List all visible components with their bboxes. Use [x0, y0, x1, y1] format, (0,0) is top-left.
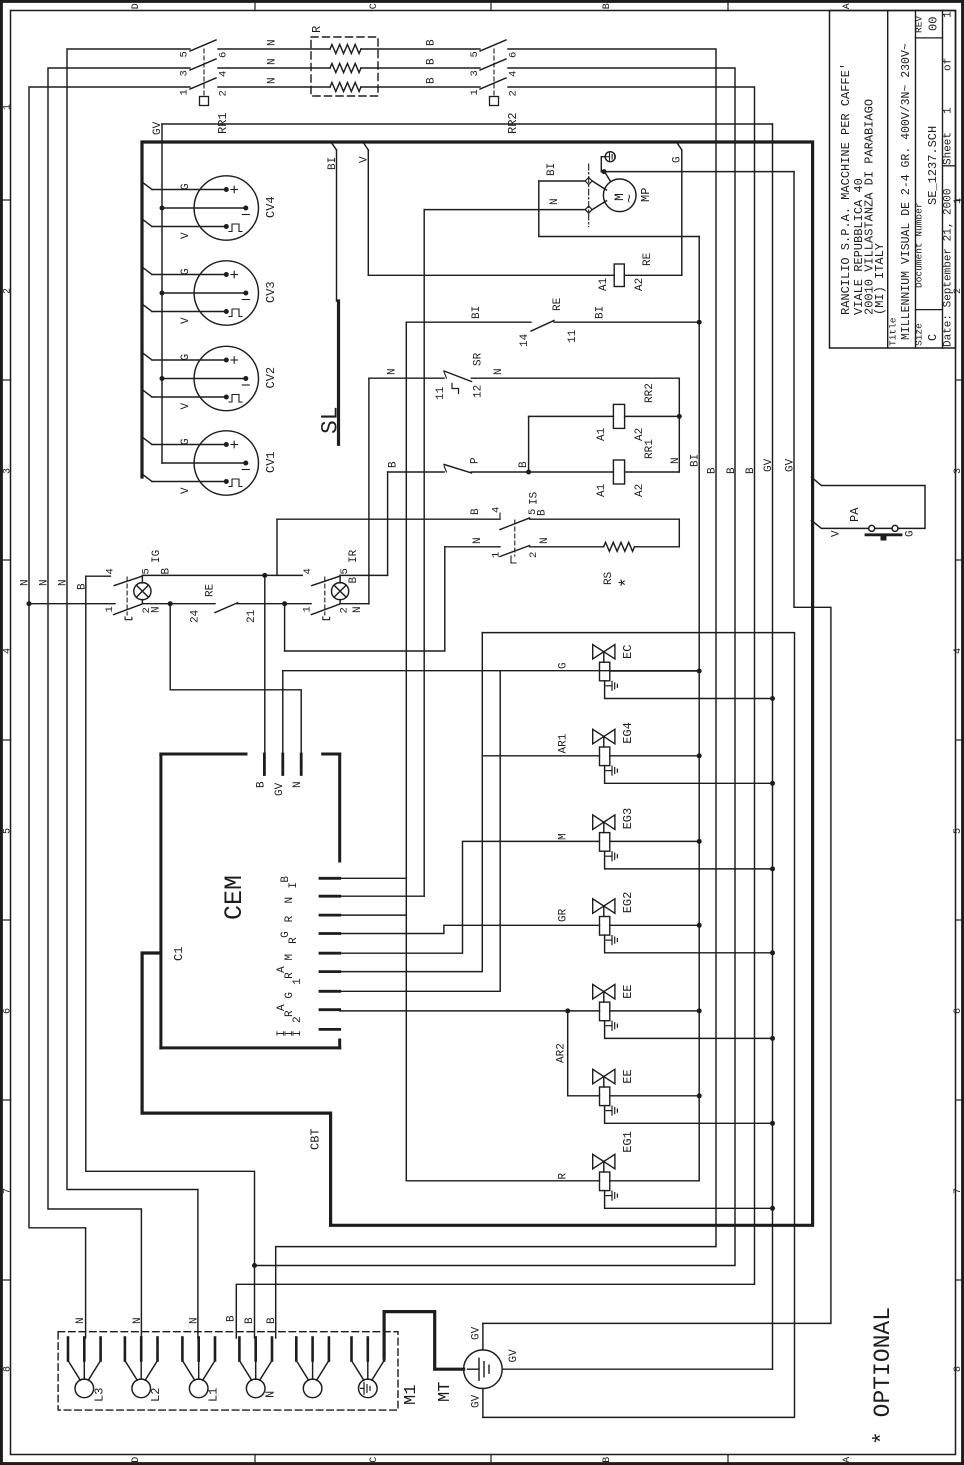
svg-text:B: B [266, 1317, 278, 1324]
svg-text:G: G [180, 438, 192, 445]
svg-text:A: A [276, 1004, 288, 1011]
svg-text:EE: EE [621, 984, 635, 998]
svg-text:A1: A1 [596, 483, 608, 497]
svg-text:4: 4 [104, 568, 116, 574]
svg-text:11: 11 [435, 386, 447, 400]
svg-text:BI: BI [595, 306, 607, 319]
svg-text:4: 4 [491, 507, 503, 513]
svg-text:IR: IR [348, 549, 360, 563]
svg-text:Size: Size [914, 323, 925, 346]
svg-text:L3: L3 [92, 1388, 106, 1402]
svg-text:B: B [226, 1315, 238, 1322]
svg-text:00: 00 [927, 17, 941, 31]
svg-text:B: B [426, 39, 438, 46]
svg-text:3: 3 [179, 70, 191, 76]
svg-text:G: G [557, 662, 569, 669]
svg-text:1: 1 [943, 107, 955, 114]
svg-text:N: N [267, 58, 279, 65]
svg-text:V: V [180, 317, 192, 324]
svg-text:C: C [926, 334, 940, 341]
svg-text:21: 21 [246, 609, 258, 623]
svg-text:BI: BI [690, 454, 702, 467]
svg-text:AR2: AR2 [556, 1043, 568, 1063]
svg-text:2: 2 [339, 607, 351, 613]
svg-text:R: R [557, 1173, 569, 1180]
svg-text:R: R [284, 915, 296, 922]
svg-text:N: N [493, 368, 505, 375]
svg-text:V: V [831, 530, 843, 537]
svg-text:1: 1 [2, 104, 13, 110]
svg-text:GV: GV [471, 1394, 483, 1408]
svg-text:SL: SL [318, 406, 344, 434]
svg-text:R: R [310, 26, 324, 33]
svg-text:L2: L2 [149, 1388, 163, 1402]
svg-text:B: B [537, 509, 549, 516]
svg-text:PA: PA [848, 507, 862, 522]
svg-text:G: G [284, 992, 296, 999]
svg-text:L1: L1 [207, 1388, 221, 1402]
svg-text:12: 12 [473, 385, 485, 398]
svg-text:GV: GV [274, 782, 286, 796]
svg-text:* OPTIONAL: * OPTIONAL [870, 1307, 896, 1445]
svg-text:N: N [387, 368, 399, 375]
svg-text:RE: RE [642, 252, 654, 266]
svg-text:GR: GR [557, 908, 569, 922]
svg-text:IS: IS [529, 491, 541, 505]
svg-text:D: D [131, 3, 142, 9]
svg-text:B: B [244, 1317, 256, 1324]
svg-text:RANCILIO S.P.A. MACCHINE PER C: RANCILIO S.P.A. MACCHINE PER CAFFE' [839, 63, 853, 315]
svg-text:N: N [132, 1317, 144, 1324]
svg-text:4: 4 [218, 71, 230, 77]
svg-text:C1: C1 [172, 947, 186, 961]
svg-text:BI: BI [546, 163, 558, 176]
svg-text:3: 3 [953, 468, 964, 474]
svg-text:N: N [539, 537, 551, 544]
svg-text:N: N [292, 781, 304, 788]
svg-text:EC: EC [621, 645, 635, 659]
svg-text:CV4: CV4 [264, 196, 278, 218]
svg-text:8: 8 [953, 1366, 964, 1372]
svg-text:Date: September 21, 2000: Date: September 21, 2000 [943, 189, 955, 347]
svg-text:G: G [180, 183, 192, 190]
svg-text:2: 2 [508, 90, 520, 96]
svg-text:IG: IG [151, 550, 163, 563]
svg-text:RR2: RR2 [506, 112, 520, 134]
svg-text:GV: GV [508, 1349, 520, 1363]
svg-text:EG1: EG1 [621, 1131, 635, 1153]
svg-text:5: 5 [2, 828, 13, 834]
svg-text:A: A [842, 1457, 853, 1463]
svg-text:1: 1 [953, 198, 964, 204]
svg-text:MP: MP [639, 188, 653, 202]
svg-text:REV: REV [914, 16, 925, 33]
svg-text:I: I [292, 1030, 304, 1037]
svg-text:N: N [549, 198, 561, 205]
svg-text:1: 1 [301, 606, 313, 612]
svg-text:A: A [276, 966, 288, 973]
svg-text:EG2: EG2 [621, 892, 635, 914]
svg-text:B: B [426, 77, 438, 84]
svg-text:N: N [264, 1391, 278, 1398]
svg-text:R: R [284, 1010, 296, 1017]
svg-text:CEM: CEM [220, 875, 249, 920]
svg-text:Sheet: Sheet [943, 132, 955, 165]
svg-text:*: * [618, 577, 638, 588]
svg-text:Title: Title [888, 317, 899, 346]
svg-text:1: 1 [104, 606, 116, 612]
svg-text:EE: EE [621, 1069, 635, 1083]
svg-text:B: B [602, 3, 613, 9]
svg-text:SR: SR [473, 352, 485, 366]
svg-text:B: B [76, 583, 88, 590]
svg-text:R: R [284, 972, 296, 979]
svg-text:1: 1 [469, 89, 481, 95]
svg-text:5: 5 [469, 51, 481, 57]
svg-text:GV: GV [471, 1326, 483, 1340]
svg-text:G: G [280, 931, 292, 938]
svg-text:6: 6 [218, 52, 230, 58]
svg-text:N: N [267, 77, 279, 84]
svg-text:B: B [726, 467, 738, 474]
svg-text:B: B [388, 461, 400, 468]
svg-text:5: 5 [179, 51, 191, 57]
svg-text:AR1: AR1 [557, 733, 569, 753]
svg-text:2: 2 [953, 288, 964, 294]
svg-text:N: N [19, 579, 31, 586]
svg-text:SE_1237.SCH: SE_1237.SCH [926, 126, 940, 205]
svg-text:G: G [180, 354, 192, 361]
svg-text:B: B [426, 58, 438, 65]
svg-text:B: B [707, 467, 719, 474]
svg-text:~: ~ [622, 194, 639, 203]
svg-text:4: 4 [302, 568, 314, 574]
svg-text:6: 6 [2, 1008, 13, 1014]
svg-text:24: 24 [190, 609, 202, 623]
svg-text:2: 2 [218, 90, 230, 96]
svg-text:11: 11 [567, 329, 579, 343]
svg-text:RE: RE [552, 297, 564, 311]
svg-text:V: V [180, 487, 192, 494]
svg-text:BI: BI [471, 306, 483, 319]
svg-text:3: 3 [2, 468, 13, 474]
svg-text:V: V [180, 232, 192, 239]
svg-text:N: N [352, 606, 364, 613]
svg-text:N: N [670, 457, 682, 464]
svg-text:RS: RS [603, 571, 615, 585]
svg-text:N: N [57, 579, 69, 586]
svg-text:V: V [180, 403, 192, 410]
svg-text:B: B [470, 508, 482, 515]
svg-text:A2: A2 [634, 428, 646, 441]
svg-text:5: 5 [141, 568, 153, 574]
svg-text:A1: A1 [596, 427, 608, 441]
svg-text:2: 2 [528, 552, 540, 558]
svg-text:14: 14 [519, 333, 531, 347]
svg-text:N: N [284, 897, 296, 904]
svg-text:N: N [472, 537, 484, 544]
svg-text:D: D [131, 1457, 142, 1463]
svg-text:I: I [288, 882, 300, 889]
svg-text:(MI) ITALY: (MI) ITALY [873, 243, 887, 315]
svg-text:N: N [267, 39, 279, 46]
svg-text:B: B [255, 781, 267, 788]
svg-text:MILLENNIUM VISUAL DE 2-4 GR.: MILLENNIUM VISUAL DE 2-4 GR. 400V/3N~ 23… [900, 43, 913, 340]
svg-text:RR1: RR1 [216, 112, 230, 134]
svg-text:M: M [284, 954, 296, 961]
svg-text:A2: A2 [634, 278, 646, 291]
svg-text:7: 7 [2, 1188, 13, 1194]
svg-text:5: 5 [953, 828, 964, 834]
svg-text:4: 4 [953, 648, 964, 654]
svg-text:6: 6 [508, 52, 520, 58]
svg-text:6: 6 [953, 1008, 964, 1014]
svg-text:1: 1 [292, 978, 304, 985]
svg-text:B: B [745, 467, 757, 474]
svg-text:B: B [348, 577, 360, 584]
svg-text:B: B [280, 876, 292, 883]
svg-text:G: G [180, 268, 192, 275]
svg-text:CV2: CV2 [264, 367, 278, 389]
svg-text:CV1: CV1 [264, 451, 278, 473]
svg-text:R: R [288, 937, 300, 944]
svg-text:N: N [150, 606, 162, 613]
svg-text:A1: A1 [598, 277, 610, 291]
svg-text:N: N [75, 1317, 87, 1324]
svg-text:5: 5 [339, 568, 351, 574]
svg-text:A: A [842, 3, 853, 9]
svg-text:RE: RE [204, 583, 216, 597]
svg-text:EG4: EG4 [621, 722, 635, 744]
svg-text:MT: MT [436, 1382, 455, 1402]
svg-text:M: M [557, 833, 569, 840]
svg-text:B: B [602, 1457, 613, 1463]
svg-text:RR2: RR2 [644, 383, 656, 403]
svg-text:1: 1 [491, 552, 503, 558]
svg-text:CBT: CBT [309, 1128, 323, 1150]
svg-text:Document Number: Document Number [914, 202, 925, 288]
svg-text:EG3: EG3 [621, 808, 635, 830]
svg-text:N: N [38, 579, 50, 586]
svg-text:7: 7 [953, 1188, 964, 1194]
svg-text:G: G [905, 530, 917, 537]
svg-text:A2: A2 [634, 484, 646, 497]
svg-text:C: C [369, 1457, 380, 1463]
svg-text:2: 2 [292, 1016, 304, 1023]
svg-text:4: 4 [508, 71, 520, 77]
svg-text:RR1: RR1 [644, 439, 656, 459]
svg-text:1: 1 [943, 11, 955, 18]
svg-text:8: 8 [2, 1366, 13, 1372]
svg-text:1: 1 [179, 89, 191, 95]
svg-text:M1: M1 [402, 1385, 421, 1405]
svg-text:B: B [161, 568, 173, 575]
svg-text:N: N [188, 1317, 200, 1324]
svg-text:2: 2 [2, 288, 13, 294]
svg-text:CV3: CV3 [264, 281, 278, 303]
svg-text:P: P [470, 457, 482, 464]
svg-text:C: C [369, 3, 380, 9]
svg-text:of: of [943, 58, 955, 71]
svg-text:3: 3 [469, 70, 481, 76]
svg-text:4: 4 [2, 648, 13, 654]
